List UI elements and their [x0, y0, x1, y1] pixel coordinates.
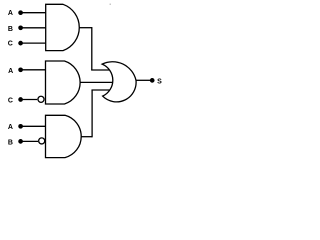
svg-text:A: A — [8, 124, 13, 131]
wire OR top input — [91, 69, 111, 71]
node dot A2 — [18, 67, 23, 72]
node dot S — [150, 78, 155, 83]
wire U3 output stub — [81, 136, 92, 138]
speck artifact — [110, 3, 111, 4]
svg-text:C: C — [8, 98, 13, 105]
node dot A3 — [18, 124, 23, 129]
node dot C2 — [18, 97, 23, 102]
svg-text:A: A — [8, 10, 13, 17]
wire U1 to OR vertical — [91, 27, 93, 70]
wire input C2 — [21, 99, 38, 101]
wire input B3 — [21, 140, 38, 142]
wire OR output — [136, 79, 151, 81]
AND gate U1 — [46, 4, 80, 50]
AND gate U2 — [46, 61, 81, 104]
inverter bubble U2 input C — [38, 96, 44, 102]
inverter bubble U3 input B — [39, 138, 45, 144]
wire OR bottom input — [91, 89, 111, 91]
wire input A2 — [21, 69, 46, 71]
OR gate U4 — [102, 62, 136, 102]
wire input A1 — [21, 12, 46, 14]
svg-text:A: A — [8, 68, 13, 75]
node dot B3 — [18, 139, 23, 144]
svg-text:B: B — [8, 139, 13, 146]
node dot C1 — [18, 41, 23, 46]
wire U1 output stub — [79, 27, 92, 29]
svg-text:B: B — [8, 26, 13, 33]
wire input B1 — [21, 27, 46, 29]
node dot B1 — [18, 25, 23, 30]
svg-text:S: S — [157, 79, 162, 86]
wire U2 output to OR — [80, 81, 113, 83]
wire U3 to OR vertical — [91, 90, 93, 137]
node dot A1 — [18, 10, 23, 15]
wire input C1 — [21, 42, 46, 44]
wire input A3 — [21, 125, 46, 127]
AND gate U3 — [46, 115, 82, 157]
svg-text:C: C — [8, 41, 13, 48]
